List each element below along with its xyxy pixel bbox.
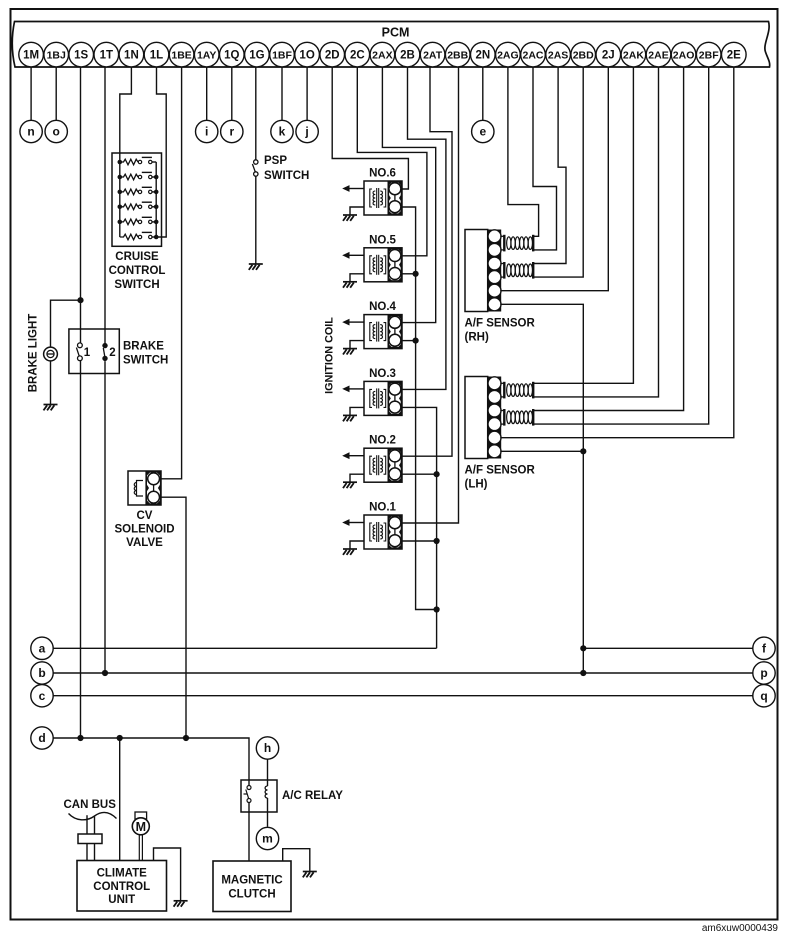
svg-text:IGNITION COIL: IGNITION COIL	[323, 317, 335, 394]
wire 2AC to RH heater-	[533, 67, 557, 250]
svg-text:1T: 1T	[100, 50, 113, 62]
svg-text:b: b	[38, 666, 45, 680]
ground (NO.6)	[343, 215, 357, 221]
cruise control switch S1 (6 resistors + contacts)	[112, 153, 162, 246]
A/C relay K1	[241, 780, 277, 812]
PCM pin 1N	[119, 42, 144, 67]
wire brake light to ground	[50, 361, 52, 404]
svg-text:p: p	[760, 666, 767, 680]
PCM pin 2AK	[621, 42, 646, 67]
PCM pin 2N	[471, 42, 496, 67]
CAN BUS wires	[69, 812, 117, 819]
node line d - climate feed	[117, 735, 123, 741]
PCM pin 1AY	[194, 42, 219, 67]
ignition coil NO.6	[364, 181, 402, 215]
climate control unit label	[93, 867, 150, 906]
PSP switch SW2	[252, 160, 258, 176]
magnetic clutch box M2	[213, 861, 291, 912]
wire magnetic clutch to ground	[283, 849, 310, 871]
wire line c-q	[53, 695, 753, 697]
off-page connector c	[31, 685, 53, 707]
node bus-NO.4	[413, 338, 419, 344]
wire line a	[53, 647, 436, 649]
magnetic clutch label	[221, 875, 282, 901]
wire 1BE to CV solenoid	[161, 67, 182, 479]
ground (climate control unit)	[174, 901, 188, 907]
node riser-NO.2	[434, 471, 440, 477]
wire 2AE to LH heater-	[533, 67, 658, 397]
wire NO.2 primary to ground	[350, 474, 364, 482]
spark output arrow (NO.2)	[342, 452, 364, 459]
svg-text:2BD: 2BD	[573, 50, 594, 62]
ignition coil NO.5	[364, 248, 402, 282]
svg-text:BRAKE: BRAKE	[123, 341, 164, 353]
off-page connector i	[196, 120, 218, 142]
wire LH pin6 to junction	[500, 450, 583, 452]
node line f junction	[580, 645, 586, 651]
off-page connector b	[31, 662, 53, 684]
wire CAN-L	[94, 817, 96, 861]
ground (NO.4)	[343, 349, 357, 355]
PCM pin 1S	[69, 42, 94, 67]
PCM pin 2AE	[646, 42, 671, 67]
wire 2BD to RH cell-	[533, 67, 583, 277]
PCM pin 2BD	[571, 42, 596, 67]
wire NO.1 secondary to riser	[402, 540, 437, 542]
svg-text:1S: 1S	[74, 50, 88, 62]
wire line d	[53, 738, 249, 780]
svg-text:1O: 1O	[299, 50, 314, 62]
wire 2AS to RH cell+	[533, 67, 566, 264]
svg-text:k: k	[279, 125, 286, 139]
PCM pin 2AX	[370, 42, 395, 67]
node LH pin6 junction	[580, 448, 586, 454]
wire 2E to LH pin5	[500, 67, 734, 438]
PCM pin 1O	[295, 42, 320, 67]
svg-text:CRUISE: CRUISE	[115, 251, 159, 263]
A/F sensor (LH) label	[465, 465, 536, 491]
svg-text:q: q	[760, 689, 767, 703]
svg-text:M: M	[136, 820, 146, 834]
svg-text:CV: CV	[137, 510, 153, 522]
CV solenoid valve L1	[128, 471, 161, 505]
wire 1AY to i	[206, 67, 208, 120]
wire NO.2 secondary to riser	[402, 473, 437, 475]
svg-text:2AK: 2AK	[623, 50, 644, 62]
wire NO.5 primary to ground	[350, 274, 364, 282]
PCM pin 1G	[245, 42, 270, 67]
spark output arrow (NO.5)	[342, 252, 364, 259]
PCM pin 2AG	[496, 42, 521, 67]
svg-text:NO.2: NO.2	[369, 435, 396, 447]
A/F sensor (RH) B1	[465, 230, 533, 312]
svg-text:(RH): (RH)	[465, 332, 489, 344]
A/F sensor (LH) B2	[465, 377, 533, 459]
blower motor M1	[132, 812, 149, 835]
CAN BUS connector	[78, 834, 102, 844]
wire 1BJ to o	[55, 67, 57, 120]
PCM pin 2C	[345, 42, 370, 67]
brake switch contact 1	[76, 343, 82, 361]
svg-text:1BF: 1BF	[272, 50, 292, 62]
ignition coil NO.4	[364, 315, 402, 349]
brake switch contact 2	[102, 343, 107, 361]
svg-text:CLIMATE: CLIMATE	[97, 867, 148, 879]
wire NO.3 secondary down to line a	[402, 407, 437, 648]
node line b junction (1T)	[102, 670, 108, 676]
wire 2N to e	[482, 67, 484, 120]
wire RH pin6 to lines f/p	[500, 304, 583, 673]
wire NO.6 primary to ground	[350, 207, 364, 215]
off-page connector r	[221, 120, 243, 142]
wire 2BB to NO.1	[402, 67, 459, 523]
svg-text:SOLENOID: SOLENOID	[114, 524, 174, 536]
svg-text:(LH): (LH)	[465, 479, 488, 491]
climate control unit box M3	[77, 861, 167, 912]
svg-text:VALVE: VALVE	[126, 537, 163, 549]
wire NO.5 secondary to bus	[402, 273, 416, 275]
node brake-light junction	[77, 297, 83, 303]
wire A/C relay to magnetic clutch	[248, 812, 250, 861]
wire 1Q to r	[231, 67, 233, 120]
svg-text:2: 2	[109, 347, 115, 359]
svg-text:h: h	[264, 741, 271, 755]
ground (NO.3)	[343, 415, 357, 421]
off-page connector n	[20, 120, 42, 142]
svg-text:2BF: 2BF	[699, 50, 719, 62]
node riser-NO.1	[434, 538, 440, 544]
svg-text:1L: 1L	[150, 50, 163, 62]
wire 2AG to RH heater+	[508, 67, 539, 236]
svg-text:j: j	[304, 125, 308, 139]
svg-text:a: a	[39, 642, 46, 656]
wire 1N to cruise switch bus	[120, 67, 132, 162]
svg-text:2BB: 2BB	[447, 50, 468, 62]
svg-text:NO.6: NO.6	[369, 168, 396, 180]
wire 2AX to NO.4	[382, 67, 435, 323]
svg-text:m: m	[262, 832, 273, 846]
svg-text:CONTROL: CONTROL	[109, 265, 166, 277]
node line p junction	[580, 670, 586, 676]
svg-text:SWITCH: SWITCH	[123, 354, 168, 366]
svg-text:A/C RELAY: A/C RELAY	[282, 790, 343, 802]
svg-text:CLUTCH: CLUTCH	[228, 889, 275, 901]
PCM pin 2D	[320, 42, 345, 67]
wire CV solenoid to line d	[161, 497, 186, 738]
svg-text:o: o	[53, 125, 60, 139]
svg-text:c: c	[39, 689, 46, 703]
svg-text:2AS: 2AS	[548, 50, 568, 62]
ground (NO.2)	[343, 482, 357, 488]
wire 1BF to k	[281, 67, 283, 120]
PCM pin 2AT	[420, 42, 445, 67]
svg-text:NO.5: NO.5	[369, 234, 396, 246]
PSP SWITCH label	[264, 155, 309, 182]
wire 2J to RH pin5	[500, 67, 608, 291]
wire 2AK to LH heater+	[533, 67, 633, 383]
svg-text:2N: 2N	[475, 50, 490, 62]
off-page connector h	[256, 737, 278, 759]
PCM pin 2J	[596, 42, 621, 67]
svg-text:2J: 2J	[602, 50, 615, 62]
svg-text:NO.4: NO.4	[369, 301, 396, 313]
wire A/C relay coil to m	[267, 812, 269, 827]
svg-text:am6xuw0000439: am6xuw0000439	[702, 923, 779, 934]
A/F sensor (RH) label	[465, 318, 536, 344]
node bus-NO.5	[413, 271, 419, 277]
svg-text:1M: 1M	[23, 50, 39, 62]
spark output arrow (NO.6)	[342, 185, 364, 192]
ground (brake light)	[44, 405, 58, 411]
spark output arrow (NO.3)	[342, 386, 364, 393]
PCM pin 2BF	[696, 42, 721, 67]
wire 1T down to brake switch	[104, 67, 106, 343]
wire 2B to NO.3	[402, 67, 446, 389]
CV solenoid valve label	[114, 510, 174, 549]
svg-text:2AE: 2AE	[648, 50, 668, 62]
wire NO.1 primary to ground	[350, 541, 364, 549]
svg-text:1BJ: 1BJ	[47, 50, 66, 62]
spark output arrow (NO.1)	[342, 519, 364, 526]
PCM pin 2AO	[671, 42, 696, 67]
wire coil bus (NO.6/NO.5/NO.4 secondary supply)	[402, 207, 437, 610]
svg-text:BRAKE LIGHT: BRAKE LIGHT	[28, 314, 40, 393]
ignition coil NO.2	[364, 448, 402, 482]
svg-text:CONTROL: CONTROL	[93, 881, 150, 893]
svg-text:A/F SENSOR: A/F SENSOR	[465, 465, 536, 477]
PCM pin 1Q	[220, 42, 245, 67]
svg-text:i: i	[205, 125, 208, 139]
off-page connector p	[753, 662, 775, 684]
wire line b-p	[53, 672, 753, 674]
svg-text:e: e	[479, 125, 486, 139]
svg-text:2C: 2C	[350, 50, 365, 62]
ignition coil NO.1	[364, 515, 402, 549]
svg-text:n: n	[27, 125, 34, 139]
PCM pin 1M	[19, 42, 44, 67]
node line d - brake switch riser	[77, 735, 83, 741]
PCM pin 1BF	[270, 42, 295, 67]
wire junction to brake light	[51, 300, 81, 347]
wire climate unit to ground	[154, 848, 181, 900]
svg-text:2AO: 2AO	[673, 50, 695, 62]
svg-text:NO.1: NO.1	[369, 502, 396, 514]
svg-text:MAGNETIC: MAGNETIC	[221, 875, 282, 887]
wire brake switch 2 to line b	[104, 361, 106, 673]
svg-text:2E: 2E	[727, 50, 741, 62]
ground (PSP switch)	[249, 264, 263, 270]
ground (NO.5)	[343, 282, 357, 288]
wire 2BF to LH cell-	[533, 67, 709, 424]
ground (magnetic clutch)	[303, 872, 317, 878]
off-page connector a	[31, 637, 53, 659]
svg-text:1: 1	[84, 347, 91, 359]
node line d - CV riser	[183, 735, 189, 741]
PCM pin 1BJ	[44, 42, 69, 67]
PCM pin 2AC	[521, 42, 546, 67]
node bus-riser junction	[434, 606, 440, 612]
svg-text:2AX: 2AX	[372, 50, 392, 62]
svg-text:NO.3: NO.3	[369, 368, 396, 380]
svg-text:2AC: 2AC	[522, 50, 543, 62]
off-page connector k	[271, 120, 293, 142]
PCM pin 1T	[94, 42, 119, 67]
wire NO.3 primary to ground	[350, 407, 364, 415]
wire 1M to n	[30, 67, 32, 120]
svg-text:UNIT: UNIT	[108, 894, 135, 906]
svg-text:1G: 1G	[249, 50, 264, 62]
wire brake switch 1 to line d	[80, 361, 82, 738]
wire h to A/C relay coil	[267, 759, 269, 780]
ignition coil NO.3	[364, 381, 402, 415]
svg-text:2AG: 2AG	[497, 50, 519, 62]
wire NO.4 primary to ground	[350, 341, 364, 349]
off-page connector q	[753, 685, 775, 707]
svg-text:2AT: 2AT	[423, 50, 443, 62]
wire 2C to NO.5	[357, 67, 427, 256]
svg-text:CAN BUS: CAN BUS	[64, 799, 117, 811]
wire NO.4 secondary to bus	[402, 340, 416, 342]
wire 2D to NO.6	[332, 67, 408, 189]
wire 1O to j	[306, 67, 308, 120]
off-page connector m	[256, 827, 278, 849]
wire 1S down to brake switch	[80, 67, 82, 345]
PCM pin 1L	[144, 42, 169, 67]
wire line d to climate control unit	[119, 738, 121, 861]
svg-text:2D: 2D	[325, 50, 340, 62]
spark output arrow (NO.4)	[342, 319, 364, 326]
svg-text:d: d	[38, 731, 45, 745]
off-page connector o	[45, 120, 67, 142]
off-page connector j	[296, 120, 318, 142]
wire 2AO to LH cell+	[533, 67, 683, 411]
PCM pin 1BE	[169, 42, 194, 67]
PCM pin 2BB	[445, 42, 470, 67]
svg-text:PCM: PCM	[382, 26, 410, 40]
off-page connector e	[472, 120, 494, 142]
PCM connector box U-PCM	[12, 22, 769, 68]
svg-text:A/F SENSOR: A/F SENSOR	[465, 318, 536, 330]
svg-text:PSP: PSP	[264, 155, 287, 167]
wire motor to climate unit	[139, 834, 142, 861]
wire PSP switch to ground	[255, 176, 257, 263]
svg-text:1BE: 1BE	[171, 50, 191, 62]
cruise control switch label	[109, 251, 166, 291]
wire 1G to PSP switch	[255, 67, 257, 160]
svg-text:1N: 1N	[124, 50, 139, 62]
brake switch box SW1	[69, 329, 119, 374]
svg-text:SWITCH: SWITCH	[264, 170, 309, 182]
svg-text:r: r	[229, 125, 234, 139]
wire line f	[583, 647, 753, 649]
PCM pin 2AS	[546, 42, 571, 67]
ground (NO.1)	[343, 549, 357, 555]
svg-text:2B: 2B	[400, 50, 415, 62]
PCM pin 2B	[395, 42, 420, 67]
svg-text:1Q: 1Q	[224, 50, 239, 62]
PCM pin 2E	[722, 42, 747, 67]
wire 2AT to NO.2	[402, 67, 452, 456]
off-page connector d	[31, 727, 53, 749]
wire 1L to cruise switch row6	[156, 67, 166, 237]
off-page connector f	[753, 637, 775, 659]
svg-text:1AY: 1AY	[197, 50, 216, 62]
brake light lamp E1	[44, 347, 58, 361]
BRAKE SWITCH label	[123, 341, 168, 367]
svg-text:SWITCH: SWITCH	[114, 279, 159, 291]
wire CAN-H	[86, 815, 88, 860]
